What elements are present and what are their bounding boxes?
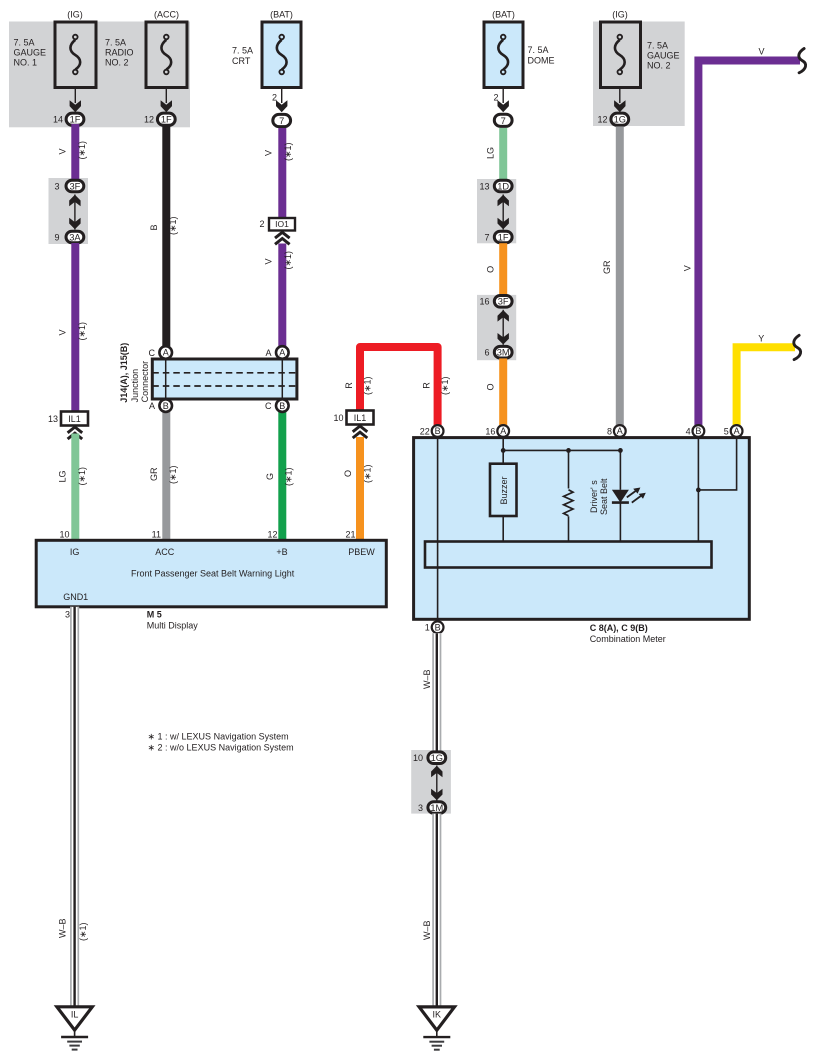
- svg-text:V: V: [57, 148, 67, 154]
- svg-text:LG: LG: [58, 470, 68, 482]
- svg-text:GR: GR: [149, 467, 159, 481]
- svg-text:+B: +B: [276, 547, 287, 557]
- svg-text:Junction: Junction: [130, 369, 140, 403]
- svg-text:7. 5A: 7. 5A: [14, 38, 35, 48]
- svg-text:DOME: DOME: [528, 56, 555, 66]
- pin 5 A: [731, 425, 743, 437]
- junction pin A top-right: [276, 346, 289, 359]
- svg-text:3M: 3M: [497, 348, 510, 358]
- svg-text:(∗1): (∗1): [283, 251, 293, 270]
- ground IK: [419, 1007, 454, 1050]
- svg-text:R: R: [344, 382, 354, 389]
- LED light arrows: [627, 491, 641, 503]
- svg-text:O: O: [343, 470, 353, 477]
- connector 7 (DOME): [494, 114, 512, 126]
- LED driver's seat belt: [619, 450, 621, 489]
- svg-text:A: A: [279, 348, 285, 358]
- svg-text:IG: IG: [70, 547, 80, 557]
- svg-text:Combination Meter: Combination Meter: [590, 634, 666, 644]
- connector 13 IL1: [61, 412, 88, 426]
- svg-text:(∗1): (∗1): [283, 142, 293, 161]
- svg-text:13: 13: [48, 414, 58, 424]
- wire O orange column5 lower: [499, 358, 507, 425]
- wire W-B left: [70, 607, 79, 1007]
- svg-text:4: 4: [686, 426, 691, 436]
- svg-text:CRT: CRT: [232, 56, 251, 66]
- node LED top: [618, 448, 623, 453]
- svg-text:B: B: [435, 622, 441, 632]
- svg-text:(∗1): (∗1): [284, 467, 294, 486]
- connector 3 3F: [66, 180, 84, 192]
- wire LG column5: [499, 128, 507, 180]
- svg-text:IL1: IL1: [68, 414, 81, 424]
- wire GR gray column2: [162, 412, 170, 541]
- svg-text:11: 11: [152, 530, 161, 540]
- svg-text:6: 6: [484, 348, 489, 358]
- svg-text:7. 5A: 7. 5A: [647, 41, 668, 51]
- connector pair background 3F/3A: [49, 178, 89, 244]
- svg-text:1F: 1F: [498, 232, 509, 242]
- svg-text:3F: 3F: [498, 297, 509, 307]
- connector pair background 1D/1F: [477, 179, 516, 243]
- svg-text:ACC: ACC: [155, 547, 175, 557]
- svg-text:(∗1): (∗1): [77, 141, 87, 160]
- svg-text:GAUGE: GAUGE: [14, 48, 47, 58]
- internal wire 5A down-left: [698, 437, 736, 490]
- svg-text:V: V: [682, 265, 692, 271]
- svg-text:O: O: [486, 266, 496, 273]
- connector pair arrow 1D/1F: [498, 195, 509, 230]
- wire fuse DOME to connector 7: [502, 88, 504, 104]
- svg-text:(∗1): (∗1): [362, 464, 372, 483]
- svg-text:1D: 1D: [497, 181, 509, 191]
- fuse GAUGE NO.1 (IG): [14, 10, 97, 88]
- svg-text:A: A: [163, 348, 169, 358]
- svg-text:Buzzer: Buzzer: [499, 476, 509, 504]
- Combination Meter box: [414, 438, 750, 620]
- svg-text:21: 21: [345, 530, 355, 540]
- svg-text:Seat Belt: Seat Belt: [599, 478, 609, 515]
- svg-text:A: A: [500, 426, 506, 436]
- connector 6 3M: [494, 346, 512, 358]
- svg-text:Front Passenger Seat Belt Warn: Front Passenger Seat Belt Warning Light: [131, 569, 295, 579]
- svg-text:5: 5: [724, 426, 729, 436]
- wire V purple column1 upper: [71, 124, 79, 181]
- svg-text:10: 10: [413, 753, 423, 763]
- svg-text:O: O: [485, 383, 495, 390]
- wire V purple column1 lower: [71, 243, 79, 412]
- svg-text:1M: 1M: [430, 803, 443, 813]
- wire fuse CRT to connector 7: [281, 88, 283, 104]
- pin 1 B bottom: [432, 621, 444, 633]
- connector pair arrow 3F/3M: [498, 310, 509, 345]
- connector 12 1G: [611, 113, 629, 125]
- connector 10 IL1: [347, 411, 374, 425]
- fuse block background GAUGE NO.2: [593, 22, 685, 127]
- node buzzer top: [501, 448, 506, 453]
- internal wire 22B down: [437, 437, 439, 620]
- svg-text:A: A: [617, 426, 623, 436]
- svg-text:1F: 1F: [161, 115, 172, 125]
- svg-text:12: 12: [597, 115, 607, 125]
- svg-text:C 8(A), C 9(B): C 8(A), C 9(B): [590, 623, 648, 633]
- svg-text:16: 16: [479, 297, 489, 307]
- svg-text:GR: GR: [602, 260, 612, 274]
- svg-text:1G: 1G: [614, 115, 626, 125]
- svg-text:GND1: GND1: [63, 592, 88, 602]
- svg-text:22: 22: [420, 426, 430, 436]
- wire LG column1: [71, 434, 79, 541]
- connector 7 (CRT): [273, 114, 291, 126]
- svg-text:(∗1): (∗1): [168, 465, 178, 484]
- svg-text:NO. 1: NO. 1: [14, 57, 38, 67]
- svg-text:7: 7: [484, 232, 489, 242]
- svg-text:PBEW: PBEW: [348, 547, 375, 557]
- internal wire 4B down: [697, 437, 699, 542]
- svg-text:A: A: [734, 426, 740, 436]
- svg-text:Y: Y: [758, 334, 764, 344]
- wire break symbol V: [799, 49, 806, 73]
- svg-text:14: 14: [53, 115, 63, 125]
- svg-text:A: A: [149, 401, 155, 411]
- connector pair arrow 3F/3A: [69, 195, 80, 230]
- svg-text:Connector: Connector: [140, 361, 150, 403]
- svg-text:W–B: W–B: [422, 920, 432, 940]
- chevron junction IL1 left: [68, 427, 83, 439]
- svg-text:1: 1: [425, 623, 430, 633]
- wire V purple column3 upper: [278, 128, 286, 218]
- svg-text:LG: LG: [485, 147, 495, 159]
- svg-text:(∗1): (∗1): [362, 376, 372, 395]
- wire fuse ACC to connector 1F: [165, 88, 167, 104]
- svg-text:GAUGE: GAUGE: [647, 51, 680, 61]
- svg-text:12: 12: [267, 530, 277, 540]
- svg-text:NO. 2: NO. 2: [105, 57, 129, 67]
- wire B black column2: [162, 126, 170, 346]
- fuse block background IG/ACC: [9, 22, 190, 128]
- svg-text:(ACC): (ACC): [154, 10, 179, 20]
- svg-text:(∗1): (∗1): [440, 376, 450, 395]
- connector pair arrow 1G/1M: [431, 766, 442, 801]
- wire Y yellow column8: [737, 347, 795, 425]
- connector pair background 1G/1M: [411, 750, 451, 814]
- svg-text:13: 13: [479, 181, 489, 191]
- svg-text:7: 7: [279, 116, 284, 126]
- svg-text:B: B: [695, 426, 701, 436]
- wire R red bridge: [360, 347, 438, 425]
- svg-text:(IG): (IG): [67, 10, 83, 20]
- svg-text:A: A: [265, 348, 271, 358]
- wire GR gray column6: [616, 126, 624, 425]
- connector 12 1F: [157, 113, 175, 125]
- connector 16 3F: [494, 296, 512, 308]
- svg-text:C: C: [265, 401, 272, 411]
- svg-text:IL1: IL1: [354, 413, 367, 423]
- wire break symbol Y: [794, 335, 801, 359]
- svg-text:∗ 1 : w/ LEXUS Navigation Syst: ∗ 1 : w/ LEXUS Navigation System: [148, 731, 289, 741]
- svg-text:J14(A), J15(B): J14(A), J15(B): [119, 343, 129, 403]
- svg-text:16: 16: [485, 426, 495, 436]
- svg-text:W–B: W–B: [57, 918, 67, 938]
- ground IL: [57, 1007, 92, 1050]
- junction pin B bottom-left: [159, 399, 172, 412]
- connector 2 IO1: [269, 218, 295, 231]
- junction pin A top-left: [159, 346, 172, 359]
- svg-text:10: 10: [59, 530, 69, 540]
- fuse RADIO NO.2 (ACC): [105, 10, 187, 88]
- wire O orange column5 mid: [499, 243, 507, 295]
- wire W-B right lower: [432, 814, 441, 1007]
- node resistor top: [566, 448, 571, 453]
- svg-text:IO1: IO1: [275, 219, 289, 229]
- fuse DOME (BAT): [484, 10, 555, 88]
- connector 7 1F: [494, 231, 512, 243]
- svg-text:12: 12: [144, 115, 154, 125]
- svg-text:M 5: M 5: [147, 610, 162, 620]
- chevron junction IO1: [275, 232, 290, 244]
- svg-text:3: 3: [65, 610, 70, 620]
- svg-text:B: B: [279, 401, 285, 411]
- connector 13 1D: [494, 180, 512, 192]
- resistor: [568, 450, 570, 488]
- svg-text:3: 3: [54, 181, 59, 191]
- svg-text:(∗1): (∗1): [77, 322, 87, 341]
- wire fuse GAUGE2 to connector 1G: [619, 88, 621, 104]
- svg-text:V: V: [758, 47, 764, 57]
- svg-text:3F: 3F: [69, 181, 80, 191]
- wire buzzer to bus: [502, 516, 504, 542]
- svg-text:(BAT): (BAT): [492, 10, 515, 20]
- junction pin B bottom-right: [276, 399, 289, 412]
- connector 3 1M: [428, 802, 446, 814]
- svg-text:R: R: [421, 382, 431, 389]
- bus bar: [425, 542, 712, 568]
- pin 16 A: [497, 425, 509, 437]
- connector pair background 3F/3M: [477, 295, 516, 360]
- svg-text:(∗1): (∗1): [168, 216, 178, 235]
- svg-text:C: C: [149, 348, 156, 358]
- internal wire top horizontal: [503, 449, 620, 451]
- connector 10 1G: [428, 752, 446, 764]
- internal wire 16A down: [502, 437, 504, 464]
- svg-text:10: 10: [333, 413, 343, 423]
- svg-text:IL: IL: [71, 1009, 79, 1019]
- svg-text:3A: 3A: [69, 232, 81, 242]
- connector 9 3A: [66, 231, 84, 243]
- svg-text:RADIO: RADIO: [105, 48, 134, 58]
- svg-text:IK: IK: [433, 1009, 442, 1019]
- svg-text:(IG): (IG): [612, 10, 628, 20]
- svg-text:3: 3: [418, 803, 423, 813]
- pin 4 B: [693, 425, 705, 437]
- svg-text:(BAT): (BAT): [270, 10, 293, 20]
- svg-text:8: 8: [607, 426, 612, 436]
- fuse CRT (BAT): [232, 10, 301, 88]
- svg-text:Driver' s: Driver' s: [589, 480, 599, 513]
- wire G green column3: [278, 412, 286, 541]
- node 4B/5A join: [696, 488, 701, 493]
- fuse GAUGE NO.2 (IG): [601, 10, 680, 88]
- Multi Display box: [36, 540, 386, 607]
- svg-text:∗ 2 : w/o LEXUS Navigation Sys: ∗ 2 : w/o LEXUS Navigation System: [148, 742, 294, 752]
- svg-text:1G: 1G: [431, 753, 443, 763]
- svg-text:G: G: [265, 473, 275, 480]
- chevron junction IL1 right: [353, 426, 368, 438]
- svg-text:7. 5A: 7. 5A: [105, 38, 126, 48]
- junction connector J14(A) J15(B): [152, 359, 297, 399]
- svg-text:7. 5A: 7. 5A: [232, 45, 253, 55]
- wire V purple column7: [698, 61, 800, 426]
- svg-text:B: B: [435, 426, 441, 436]
- svg-text:7: 7: [501, 116, 506, 126]
- svg-text:(∗1): (∗1): [78, 922, 88, 941]
- svg-text:V: V: [263, 258, 273, 264]
- wire O orange column4: [356, 437, 364, 541]
- svg-text:V: V: [263, 150, 273, 156]
- svg-text:9: 9: [54, 232, 59, 242]
- pin 22 B: [432, 425, 444, 437]
- svg-text:7. 5A: 7. 5A: [528, 45, 549, 55]
- svg-text:B: B: [149, 224, 159, 230]
- svg-text:NO. 2: NO. 2: [647, 60, 671, 70]
- pin 8 A: [614, 425, 626, 437]
- wire V purple column3 lower: [278, 244, 286, 347]
- connector 14 1F: [66, 113, 84, 125]
- svg-text:Multi Display: Multi Display: [147, 621, 199, 631]
- svg-text:W–B: W–B: [422, 669, 432, 689]
- svg-text:V: V: [57, 329, 67, 335]
- wire fuse IG to connector 1F: [74, 88, 76, 104]
- svg-text:B: B: [163, 401, 169, 411]
- svg-text:2: 2: [259, 219, 264, 229]
- wire W-B right upper: [432, 633, 441, 752]
- svg-text:(∗1): (∗1): [77, 467, 87, 486]
- svg-text:1F: 1F: [70, 115, 81, 125]
- buzzer: [490, 464, 517, 516]
